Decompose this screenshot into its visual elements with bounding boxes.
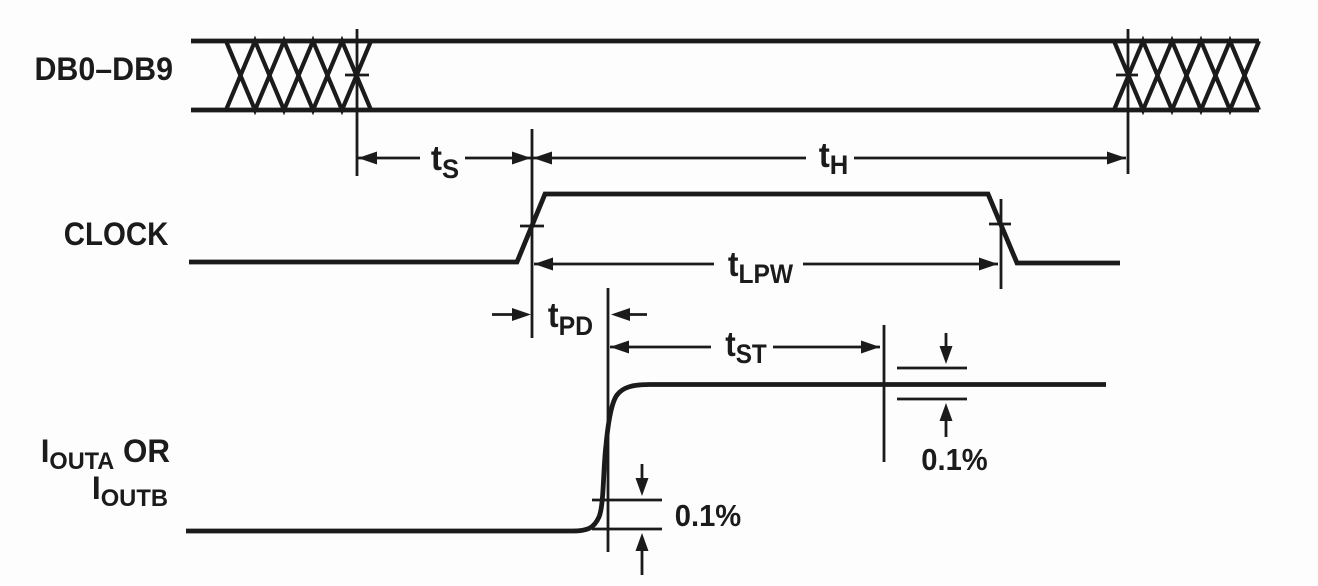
svg-text:tPD: tPD (548, 297, 593, 341)
left crosshatch zigzag A (226, 41, 371, 110)
tST dimension line (610, 346, 880, 349)
svg-text:CLOCK: CLOCK (64, 216, 169, 252)
svg-text:tST: tST (725, 326, 767, 370)
right settling down arrow shaft (945, 333, 948, 350)
tH right arrowhead (1107, 152, 1126, 165)
lower settling up arrow shaft (641, 551, 644, 575)
left crosshatch zigzag B (226, 41, 371, 110)
svg-text:DB0–DB9: DB0–DB9 (34, 51, 173, 87)
tS right arrowhead (512, 152, 531, 165)
right settling band lower line (897, 398, 967, 401)
tS dimension line (358, 157, 531, 160)
tST left arrowhead (610, 341, 629, 354)
svg-text:IOUTB: IOUTB (92, 470, 168, 512)
lower settling down arrow shaft (641, 464, 644, 482)
reference line L4 at clock falling edge (1000, 199, 1003, 289)
right settling up arrowhead (940, 403, 953, 421)
reference line L1 at left data transition (356, 29, 359, 176)
tick on L3 mid-bus (1116, 74, 1138, 77)
tick on clock falling edge (989, 223, 1011, 226)
tick on L1 mid-bus (345, 74, 369, 77)
clock waveform (189, 194, 1120, 263)
tick on clock rising edge (520, 225, 544, 228)
lower settling band lower line (592, 528, 662, 531)
svg-text:0.1%: 0.1% (921, 443, 987, 477)
lower settling down arrowhead (636, 478, 649, 496)
right settling down arrowhead (940, 346, 953, 364)
tH left arrowhead (533, 152, 552, 165)
bus top line (191, 39, 1259, 44)
tLPW dimension line (534, 263, 998, 266)
svg-text:tLPW: tLPW (728, 246, 794, 290)
tPD right outside arrow shaft (629, 313, 647, 316)
bus bottom line (191, 108, 1259, 113)
tH dimension line (533, 157, 1126, 160)
lower settling band upper line (592, 499, 662, 502)
svg-text:tS: tS (431, 139, 459, 184)
tPD left outside arrow shaft (492, 313, 514, 316)
right crosshatch zigzag A (1114, 41, 1259, 110)
lower settling up arrowhead (636, 533, 649, 551)
svg-text:IOUTA OR: IOUTA OR (41, 433, 170, 475)
right settling band upper line (897, 367, 967, 370)
reference line L6 at settling point (883, 325, 886, 462)
reference line L3 at right data transition (1127, 29, 1130, 174)
right crosshatch zigzag B (1114, 41, 1259, 110)
right settling up arrow shaft (945, 420, 948, 437)
svg-text:tH: tH (819, 136, 849, 180)
output waveform (186, 385, 1106, 532)
svg-text:0.1%: 0.1% (675, 499, 741, 533)
tPD right outside arrowhead (611, 308, 630, 321)
tLPW left arrowhead (534, 258, 553, 271)
reference line L2 at clock rising edge (531, 129, 534, 338)
tPD left outside arrowhead (512, 308, 531, 321)
tST right arrowhead (861, 341, 880, 354)
tS left arrowhead (358, 152, 377, 165)
reference line L5 at output transition (607, 288, 610, 552)
tLPW right arrowhead (979, 258, 998, 271)
